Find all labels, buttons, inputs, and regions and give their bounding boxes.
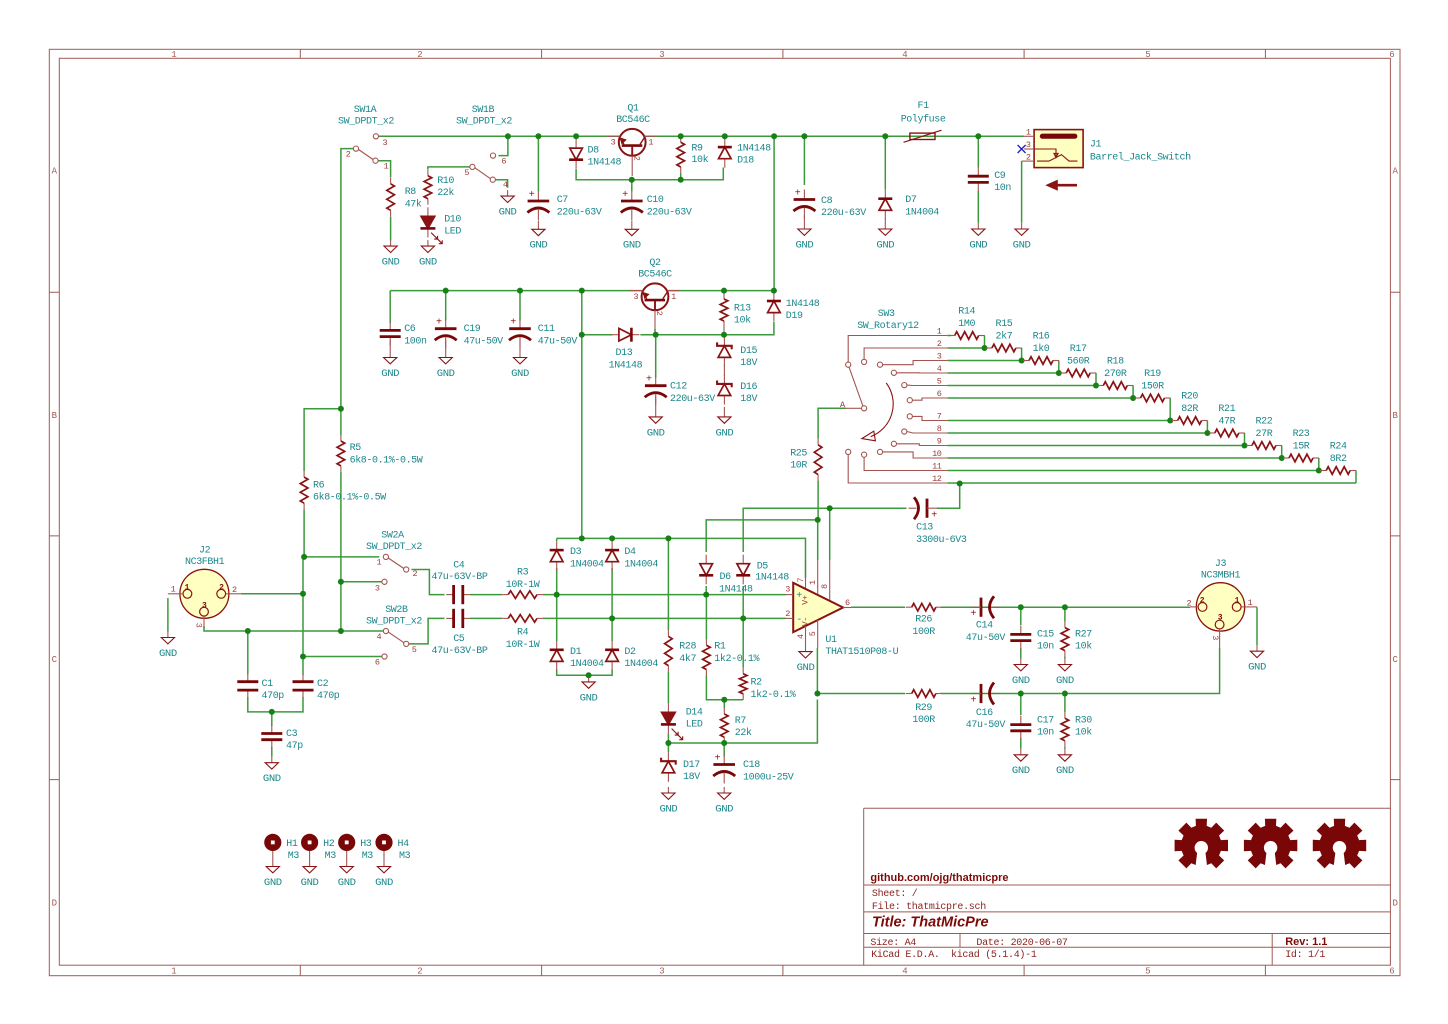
zener diode D15 18V — [723, 337, 725, 346]
wire D5 top row to C13 — [743, 508, 906, 552]
wire C13 right — [937, 507, 960, 509]
junction — [579, 332, 585, 338]
transistor Q2 — [629, 283, 679, 330]
svg-text:NC3FBH1: NC3FBH1 — [185, 557, 225, 568]
svg-text:GND: GND — [511, 369, 529, 380]
wire C3 feed — [271, 712, 273, 726]
svg-text:M3: M3 — [288, 851, 300, 862]
wire J1 pin2 to ground — [1021, 161, 1023, 223]
svg-text:2: 2 — [1187, 598, 1192, 608]
svg-text:2: 2 — [1026, 153, 1031, 163]
junction — [1062, 604, 1068, 610]
svg-text:1N4004: 1N4004 — [570, 559, 604, 570]
svg-text:R27: R27 — [1075, 629, 1092, 640]
wire J2 pin1 to ground — [167, 598, 169, 632]
capacitor C17 10n — [1020, 716, 1022, 724]
connector J1 Barrel_Jack_Switch — [1022, 130, 1084, 189]
mounting hole H2 — [301, 834, 318, 851]
junction — [827, 505, 833, 511]
svg-text:82R: 82R — [1181, 404, 1198, 415]
svg-text:1k0: 1k0 — [1033, 343, 1050, 355]
wire SW1B pin5 to R10 — [428, 167, 470, 170]
junction — [771, 288, 777, 294]
svg-text:3: 3 — [937, 351, 942, 361]
svg-text:SW_DPDT_x2: SW_DPDT_x2 — [338, 117, 394, 128]
svg-text:GND: GND — [876, 240, 894, 251]
svg-text:U1: U1 — [825, 635, 837, 646]
svg-text:6: 6 — [1389, 50, 1394, 60]
capacitor C2 470p — [302, 674, 304, 681]
svg-text:BC546C: BC546C — [616, 115, 650, 126]
wire ladder bend — [1132, 386, 1134, 399]
junction — [245, 628, 251, 634]
capacitor C16 47u-50V — [980, 684, 983, 703]
svg-text:47u-63V-BP: 47u-63V-BP — [432, 572, 488, 583]
svg-text:18V: 18V — [740, 358, 757, 369]
svg-text:Sheet: /: Sheet: / — [872, 888, 918, 900]
svg-text:SW3: SW3 — [878, 309, 895, 320]
svg-text:1N4004: 1N4004 — [624, 659, 658, 670]
wire R27 feed — [1064, 607, 1066, 621]
capacitor C12 — [655, 376, 657, 386]
svg-text:470p: 470p — [317, 691, 340, 702]
svg-text:R9: R9 — [691, 144, 703, 155]
svg-text:GND: GND — [301, 878, 319, 889]
svg-text:GND: GND — [660, 804, 678, 815]
diode D2 1N4004 — [611, 641, 613, 650]
svg-text:C: C — [1392, 655, 1398, 665]
junction — [1019, 358, 1025, 364]
wire SW2B pin6 row — [303, 656, 382, 658]
junction — [678, 133, 684, 139]
svg-text:J1: J1 — [1090, 140, 1102, 151]
svg-text:+: + — [970, 609, 976, 620]
ground — [271, 757, 273, 763]
ground — [1020, 749, 1022, 755]
svg-text:2: 2 — [417, 50, 422, 60]
wire right vertical +V to Q2 rail — [773, 136, 775, 290]
svg-text:H1: H1 — [286, 839, 298, 850]
wire bridge bottom to ground — [557, 670, 612, 676]
junction — [1130, 395, 1136, 401]
wire D15 to D16 — [723, 365, 725, 376]
svg-text:2: 2 — [219, 583, 224, 592]
junction — [301, 554, 307, 560]
svg-text:D4: D4 — [624, 547, 636, 558]
fuse F1 Polyfuse — [904, 130, 942, 142]
ground — [507, 190, 509, 196]
svg-text:D17: D17 — [683, 760, 700, 771]
ground — [723, 411, 725, 417]
svg-text:47u-63V-BP: 47u-63V-BP — [432, 646, 488, 657]
wire R4 row — [470, 618, 786, 667]
wire C18 feed — [723, 743, 725, 757]
svg-text:8: 8 — [820, 584, 830, 589]
svg-text:Q2: Q2 — [649, 258, 661, 269]
svg-text:R10: R10 — [437, 176, 454, 187]
wire +V input top rail — [379, 135, 1025, 137]
LED D14 — [667, 703, 669, 712]
wire R7 bottom — [723, 740, 725, 743]
svg-text:560R: 560R — [1067, 357, 1090, 368]
svg-text:10n: 10n — [1037, 641, 1054, 652]
connector J2 NC3FBH1 — [168, 569, 241, 628]
svg-text:270R: 270R — [1104, 369, 1127, 380]
junction — [975, 133, 981, 139]
svg-text:Rev: 1.1: Rev: 1.1 — [1285, 936, 1327, 948]
svg-text:GND: GND — [716, 428, 734, 439]
svg-text:C6: C6 — [404, 324, 416, 335]
zener diode D16 18V — [723, 375, 725, 384]
diode D13 1N4148 — [611, 334, 619, 336]
svg-text:6: 6 — [937, 389, 942, 399]
svg-text:100n: 100n — [404, 336, 427, 347]
svg-text:GND: GND — [499, 208, 517, 219]
switch SW1B — [470, 153, 496, 182]
resistor R15 — [986, 347, 992, 349]
svg-text:1: 1 — [808, 580, 818, 585]
wire R30 feed — [1064, 694, 1066, 713]
svg-text:R8: R8 — [405, 187, 417, 198]
resistor R25 — [817, 439, 819, 445]
svg-text:+: + — [622, 190, 628, 201]
svg-text:3: 3 — [1210, 635, 1220, 640]
wire R1 R2 bottom row — [706, 595, 743, 700]
diode D8 1N4148 — [575, 139, 577, 148]
zener diode D17 18V — [667, 752, 669, 761]
svg-text:4k7: 4k7 — [679, 653, 696, 665]
junction — [721, 288, 727, 294]
wire J3 pin1 ground — [1256, 607, 1258, 645]
wire C15 feed — [1020, 607, 1022, 625]
svg-text:2: 2 — [346, 149, 351, 159]
svg-text:A: A — [52, 167, 58, 177]
junction — [443, 288, 449, 294]
svg-text:D: D — [52, 899, 57, 909]
resistor R8 — [390, 178, 392, 184]
svg-text:SW_DPDT_x2: SW_DPDT_x2 — [366, 617, 422, 628]
svg-text:R29: R29 — [915, 703, 932, 714]
junction — [609, 535, 615, 541]
mounting hole H4 — [375, 834, 392, 851]
junction — [1279, 455, 1285, 461]
resistor R18 — [1097, 385, 1103, 387]
resistor R7 — [723, 708, 725, 714]
svg-text:R21: R21 — [1218, 404, 1235, 415]
junction — [1242, 443, 1248, 449]
svg-text:5: 5 — [1145, 967, 1150, 977]
junction — [338, 628, 344, 634]
junction — [1062, 691, 1068, 697]
svg-text:C16: C16 — [976, 708, 993, 719]
svg-text:GND: GND — [797, 663, 815, 674]
capacitor C15 10n — [1020, 626, 1022, 634]
junction — [554, 592, 560, 598]
resistor R14 — [949, 335, 955, 337]
ground — [1256, 645, 1258, 651]
svg-text:18V: 18V — [740, 394, 757, 405]
svg-text:C8: C8 — [821, 196, 833, 207]
wire Q1 emitter bus — [576, 168, 723, 180]
junction — [1018, 604, 1024, 610]
resistor R5 6k8 — [340, 435, 342, 441]
wire ladder bend — [1281, 446, 1283, 459]
svg-text:1: 1 — [648, 138, 653, 148]
wire D16 to ground — [723, 407, 725, 411]
resistor R30 10k — [1064, 712, 1066, 718]
wire SW3 row 3 — [947, 360, 1021, 362]
wire Q2 base bus — [582, 322, 774, 335]
svg-text:3: 3 — [194, 623, 204, 628]
wire ladder bend — [1355, 471, 1357, 484]
junction — [1056, 370, 1062, 376]
svg-text:11: 11 — [932, 461, 942, 471]
resistor R24 — [1320, 470, 1326, 472]
svg-text:2: 2 — [631, 156, 641, 161]
svg-text:3: 3 — [383, 138, 388, 148]
svg-text:2: 2 — [232, 585, 237, 595]
svg-text:R19: R19 — [1144, 369, 1161, 380]
svg-text:F1: F1 — [917, 101, 929, 112]
wire D7 feed — [884, 136, 886, 189]
svg-text:C10: C10 — [647, 195, 664, 206]
svg-text:GND: GND — [647, 428, 665, 439]
wire U1 output row — [851, 606, 1190, 608]
resistor R16 — [1023, 360, 1029, 362]
svg-text:C5: C5 — [453, 634, 465, 645]
svg-text:1: 1 — [171, 967, 176, 977]
wire C1 feed — [247, 631, 249, 674]
wire R5 R6 top branch — [304, 409, 341, 471]
svg-text:1: 1 — [1235, 597, 1240, 606]
svg-text:D10: D10 — [444, 214, 461, 225]
svg-text:GND: GND — [796, 240, 814, 251]
svg-text:GND: GND — [1056, 676, 1074, 687]
svg-text:SW_DPDT_x2: SW_DPDT_x2 — [366, 542, 422, 553]
mounting hole H3 — [338, 834, 355, 851]
svg-text:1: 1 — [671, 292, 676, 302]
wire ladder bend — [984, 336, 986, 349]
wire bridge D4-D2 vertical — [611, 538, 613, 641]
svg-text:+: + — [931, 511, 937, 522]
title block — [864, 808, 1391, 965]
svg-text:R1: R1 — [714, 642, 726, 653]
junction — [815, 517, 821, 523]
wire C19 to ground — [445, 340, 447, 352]
wire C10 to ground — [631, 221, 633, 224]
wire bridge D3-D1 vertical — [556, 568, 558, 641]
wire R13 bottom — [723, 327, 725, 335]
svg-text:+: + — [970, 695, 976, 706]
resistor R23 — [1283, 457, 1289, 459]
svg-text:1: 1 — [185, 583, 190, 592]
ground — [167, 632, 169, 638]
junction — [957, 481, 963, 487]
junction — [609, 615, 615, 621]
wire ladder bend — [1021, 348, 1023, 361]
svg-text:H4: H4 — [398, 839, 410, 850]
ground — [537, 223, 539, 229]
wire C7 to ground — [537, 221, 539, 224]
svg-text:LED: LED — [686, 719, 703, 730]
svg-text:1: 1 — [171, 50, 176, 60]
svg-text:10R-1W: 10R-1W — [506, 580, 540, 591]
wire D7 bottom — [884, 219, 886, 224]
resistor R28 — [667, 630, 669, 636]
svg-text:5: 5 — [464, 168, 469, 178]
svg-text:R22: R22 — [1256, 417, 1273, 428]
ground — [383, 861, 385, 867]
svg-text:GND: GND — [375, 878, 393, 889]
svg-text:47u-50V: 47u-50V — [966, 633, 1006, 644]
svg-text:5: 5 — [1145, 50, 1150, 60]
wire C10 feed — [631, 180, 633, 192]
op-amp U1 THAT1510P08-U — [786, 560, 851, 648]
svg-text:22k: 22k — [437, 187, 454, 199]
wire R28 feed — [667, 538, 669, 630]
svg-text:3: 3 — [659, 50, 664, 60]
junction — [1018, 691, 1024, 697]
resistor R21 — [1209, 432, 1215, 434]
wire ladder bend — [1095, 373, 1097, 386]
svg-text:4: 4 — [796, 634, 806, 639]
wire C13 branch from row12 — [953, 484, 960, 509]
svg-text:2: 2 — [785, 609, 790, 619]
svg-text:6: 6 — [1389, 967, 1394, 977]
junction — [505, 133, 511, 139]
svg-text:+: + — [510, 318, 516, 329]
ground — [805, 646, 807, 652]
svg-text:3: 3 — [611, 138, 616, 148]
capacitor C7 — [537, 191, 539, 201]
capacitor C1 470p — [247, 674, 249, 681]
resistor R26 100R — [906, 606, 912, 608]
wire R5 bottom — [340, 472, 342, 631]
svg-text:SW_Rotary12: SW_Rotary12 — [857, 321, 919, 332]
junction — [721, 697, 727, 703]
junction — [300, 591, 306, 597]
wire J2 pin2 row — [241, 593, 303, 595]
svg-text:22k: 22k — [735, 727, 752, 739]
svg-text:GND: GND — [437, 369, 455, 380]
svg-text:M3: M3 — [399, 851, 411, 862]
wire U1 pin8 drop — [829, 508, 831, 560]
svg-text:1N4148: 1N4148 — [786, 299, 820, 310]
svg-text:D15: D15 — [740, 346, 757, 357]
svg-text:4: 4 — [937, 364, 942, 374]
svg-text:File: thatmicpre.sch: File: thatmicpre.sch — [872, 901, 986, 913]
transistor Q1 — [607, 129, 657, 176]
svg-text:GND: GND — [1012, 676, 1030, 687]
wire C8 to ground — [803, 215, 805, 223]
ground — [631, 223, 633, 229]
capacitor C11 — [519, 319, 521, 329]
svg-text:GND: GND — [580, 693, 598, 704]
svg-text:D18: D18 — [737, 156, 754, 167]
ground — [346, 861, 348, 867]
svg-text:12: 12 — [932, 474, 942, 484]
rotary switch SW3 SW_Rotary12 — [846, 336, 948, 484]
wire SW1B pin4 to ground — [495, 180, 507, 188]
svg-text:B: B — [52, 411, 58, 421]
svg-text:220u-63V: 220u-63V — [670, 394, 715, 405]
svg-text:Title: ThatMicPre: Title: ThatMicPre — [872, 915, 989, 931]
ground — [723, 787, 725, 793]
junction — [721, 740, 727, 746]
svg-text:J2: J2 — [199, 545, 211, 556]
wire ladder bend — [1169, 398, 1171, 421]
capacitor C3 47p — [271, 725, 273, 733]
capacitor C14 47u-50V — [980, 598, 983, 617]
svg-text:9: 9 — [937, 436, 942, 446]
svg-text:Q1: Q1 — [627, 104, 639, 115]
svg-text:8R2: 8R2 — [1330, 454, 1347, 465]
svg-text:10R-1W: 10R-1W — [506, 640, 540, 651]
svg-text:47u-50V: 47u-50V — [538, 336, 578, 347]
capacitor C8 — [803, 190, 805, 200]
wire R27 ground — [1064, 657, 1066, 659]
svg-text:C13: C13 — [916, 522, 933, 533]
ground — [1020, 659, 1022, 665]
svg-text:H2: H2 — [323, 839, 335, 850]
svg-text:1N4148: 1N4148 — [609, 361, 643, 372]
wire ladder bend — [1058, 361, 1060, 374]
svg-text:SW_DPDT_x2: SW_DPDT_x2 — [456, 117, 512, 128]
svg-text:1N4148: 1N4148 — [719, 585, 753, 596]
svg-text:C15: C15 — [1037, 629, 1054, 640]
wire D14 anode — [667, 672, 669, 704]
svg-text:1N4148: 1N4148 — [755, 572, 789, 583]
svg-text:220u-63V: 220u-63V — [557, 207, 602, 218]
svg-text:R20: R20 — [1181, 392, 1198, 403]
junction — [982, 345, 988, 351]
wire C17 feed — [1020, 694, 1022, 716]
wire SW3 row 2 — [947, 347, 984, 349]
svg-text:R15: R15 — [996, 319, 1013, 330]
diode D6 1N4148 — [705, 555, 707, 564]
diode D3 1N4004 — [556, 541, 558, 550]
wire D6 bottom — [705, 586, 707, 595]
svg-text:47R: 47R — [1218, 417, 1235, 428]
svg-text:5: 5 — [937, 376, 942, 386]
wire R7 top — [723, 700, 725, 708]
svg-text:1N4004: 1N4004 — [905, 207, 939, 218]
svg-text:1: 1 — [937, 326, 942, 336]
capacitor C4 — [446, 594, 452, 596]
svg-text:47u-50V: 47u-50V — [464, 336, 504, 347]
svg-text:220u-63V: 220u-63V — [821, 208, 866, 219]
svg-text:GND: GND — [1013, 240, 1031, 251]
ground — [1064, 659, 1066, 665]
resistor R6 6k8 — [303, 471, 305, 477]
svg-text:R25: R25 — [790, 448, 807, 459]
junction — [1167, 418, 1173, 424]
svg-text:R4: R4 — [517, 628, 529, 639]
wire SW3 row 11 — [947, 470, 1319, 472]
resistor R4 10R-1W — [502, 617, 508, 619]
svg-text:18V: 18V — [683, 772, 700, 783]
junction — [579, 535, 585, 541]
svg-text:1k2-0.1%: 1k2-0.1% — [751, 689, 796, 701]
wire D14 R7 bottom row — [668, 700, 817, 744]
svg-text:3: 3 — [1218, 614, 1223, 623]
wire SW2A pin3 row — [341, 581, 382, 583]
wire C6 feed — [389, 291, 391, 323]
wire SW3 row 7 — [947, 420, 1170, 422]
wire C19 feed — [445, 291, 447, 321]
wire SW3 row 1 — [947, 335, 951, 337]
svg-text:R13: R13 — [734, 303, 751, 314]
